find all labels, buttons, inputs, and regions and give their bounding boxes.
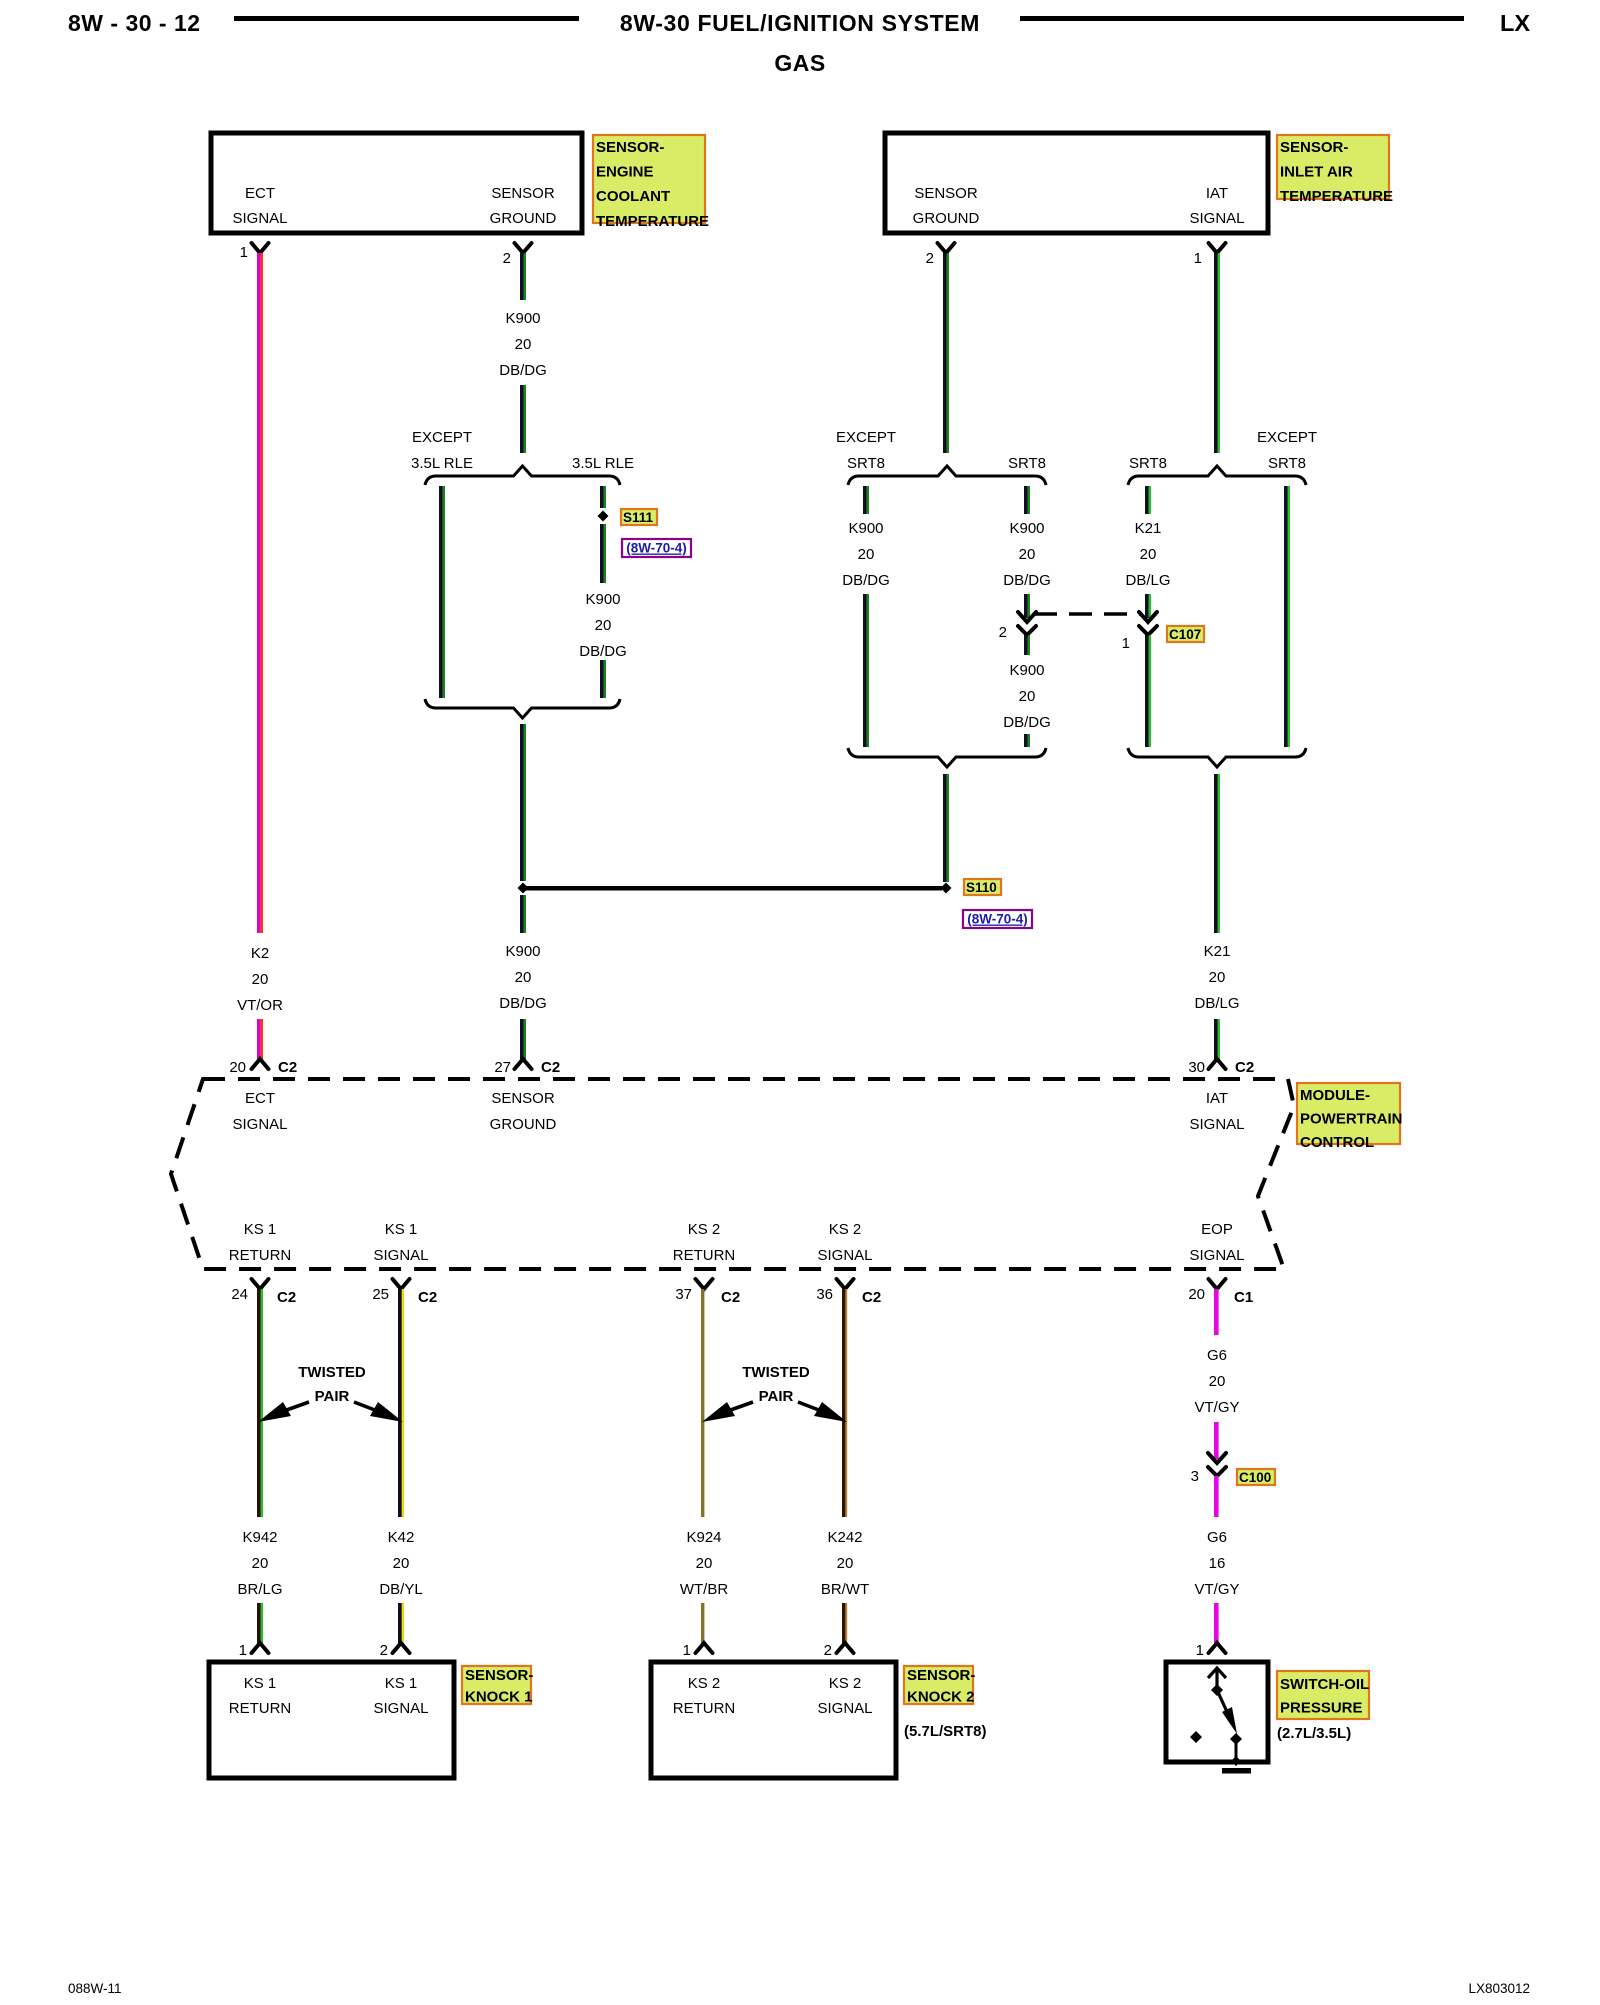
connector C100 [1208, 1453, 1226, 1463]
splice S110 left junction [518, 883, 529, 894]
wire branch 3.5L RLE lower [600, 660, 604, 698]
connector C107 pin 2 [1018, 612, 1036, 622]
svg-text:SIGNAL: SIGNAL [1189, 1247, 1244, 1264]
dashed link to C107 [1034, 612, 1141, 616]
svg-text:DB/LG: DB/LG [1194, 995, 1239, 1012]
wire K900 to splice S110 [520, 724, 524, 881]
svg-text:KS 1: KS 1 [244, 1675, 277, 1692]
svg-text:K942: K942 [242, 1529, 277, 1546]
svg-text:K2: K2 [251, 945, 269, 962]
svg-text:20: 20 [595, 617, 612, 634]
oil pressure switch box [1166, 1662, 1268, 1762]
svg-text:36: 36 [816, 1286, 833, 1303]
wire K924 KS2 return [701, 1289, 704, 1517]
svg-text:PAIR: PAIR [759, 1388, 794, 1405]
svg-text:20: 20 [1019, 688, 1036, 705]
svg-text:C2: C2 [1235, 1059, 1254, 1076]
svg-text:SIGNAL: SIGNAL [817, 1247, 872, 1264]
svg-text:1: 1 [1196, 1642, 1204, 1659]
wire G6 lower [1214, 1603, 1219, 1643]
svg-text:SIGNAL: SIGNAL [373, 1700, 428, 1717]
svg-text:TWISTED: TWISTED [742, 1364, 810, 1381]
svg-text:EOP: EOP [1201, 1221, 1233, 1238]
svg-text:ENGINE: ENGINE [596, 164, 654, 181]
label MODULE-POWERTRAIN CONTROL [1297, 1083, 1400, 1144]
label C100 [1237, 1469, 1275, 1485]
brace split except-SRT8 [848, 466, 1046, 485]
ground symbol [1222, 1768, 1251, 1774]
wire K924 lower [701, 1603, 704, 1643]
svg-text:(5.7L/SRT8): (5.7L/SRT8) [904, 1723, 987, 1740]
knock sensor 2 box [651, 1662, 896, 1778]
label SENSOR-KNOCK 2 [904, 1666, 973, 1704]
svg-text:3: 3 [1191, 1468, 1199, 1485]
svg-text:SENSOR-: SENSOR- [1280, 139, 1348, 156]
svg-text:20: 20 [1188, 1286, 1205, 1303]
svg-text:30: 30 [1188, 1059, 1205, 1076]
svg-text:C1: C1 [1234, 1289, 1253, 1306]
wire branch 3.5L RLE upper [600, 486, 604, 508]
svg-text:20: 20 [515, 336, 532, 353]
switch contact arrow [1208, 1668, 1226, 1678]
svg-text:VT/GY: VT/GY [1194, 1581, 1239, 1598]
svg-text:C107: C107 [1169, 627, 1201, 642]
svg-text:SIGNAL: SIGNAL [232, 210, 287, 227]
svg-text:K242: K242 [827, 1529, 862, 1546]
svg-text:DB/DG: DB/DG [1003, 714, 1051, 731]
svg-text:S110: S110 [966, 880, 997, 895]
svg-text:EXCEPT: EXCEPT [1257, 429, 1317, 446]
twisted pair arrows KS2 [725, 1402, 753, 1412]
svg-text:EXCEPT: EXCEPT [412, 429, 472, 446]
wire K42 lower [398, 1603, 402, 1643]
wire K42 KS1 signal [398, 1289, 402, 1517]
svg-text:1: 1 [1194, 250, 1202, 267]
svg-text:37: 37 [675, 1286, 692, 1303]
svg-text:G6: G6 [1207, 1347, 1227, 1364]
wire branch except SRT8 upper [863, 486, 867, 514]
splice S110 right junction [941, 883, 952, 894]
svg-text:DB/DG: DB/DG [499, 362, 547, 379]
wire K21 below C107 [1145, 635, 1149, 747]
wire K900 to PCM [520, 1019, 524, 1059]
wire SRT8 below C107 [1024, 635, 1028, 655]
wire K2 20 VT/OR (ECT signal) [257, 253, 261, 933]
svg-text:K900: K900 [848, 520, 883, 537]
svg-text:1: 1 [1122, 635, 1130, 652]
svg-text:K42: K42 [388, 1529, 415, 1546]
svg-text:1: 1 [240, 244, 248, 261]
wire sensor ground IAT [943, 253, 947, 453]
svg-text:20: 20 [515, 969, 532, 986]
svg-text:KS 2: KS 2 [829, 1221, 862, 1238]
svg-text:KS 1: KS 1 [244, 1221, 277, 1238]
svg-text:20: 20 [837, 1555, 854, 1572]
svg-text:DB/DG: DB/DG [842, 572, 890, 589]
svg-text:20: 20 [229, 1059, 246, 1076]
label SWITCH-OIL PRESSURE [1277, 1671, 1369, 1719]
header rule right [1020, 16, 1464, 21]
link 8W-70-4 (S110) [963, 910, 1032, 928]
wire K21 to C107 [1145, 594, 1149, 618]
svg-text:K924: K924 [686, 1529, 721, 1546]
wire branch 3.5L RLE below splice [600, 524, 604, 583]
pin 20 C2 PCM connector [252, 1059, 269, 1069]
svg-text:ECT: ECT [245, 185, 275, 202]
wire to ground [1235, 1739, 1238, 1762]
wire K21 IAT signal [1214, 253, 1218, 453]
svg-text:CONTROL: CONTROL [1300, 1134, 1374, 1151]
wire branch SRT8 upper [1024, 486, 1028, 514]
svg-text:SRT8: SRT8 [1129, 455, 1167, 472]
wire G6 below C100 [1214, 1476, 1219, 1517]
svg-text:KS 2: KS 2 [688, 1221, 721, 1238]
brace merge IAT SRT8 [1128, 748, 1306, 767]
svg-text:SRT8: SRT8 [1268, 455, 1306, 472]
svg-text:BR/WT: BR/WT [821, 1581, 869, 1598]
svg-text:POWERTRAIN: POWERTRAIN [1300, 1111, 1403, 1128]
svg-text:20: 20 [393, 1555, 410, 1572]
svg-text:TEMPERATURE: TEMPERATURE [1280, 188, 1393, 205]
svg-text:RETURN: RETURN [229, 1247, 292, 1264]
svg-text:20: 20 [252, 971, 269, 988]
svg-text:SENSOR-: SENSOR- [596, 139, 664, 156]
svg-text:VT/GY: VT/GY [1194, 1399, 1239, 1416]
wire K942 lower [257, 1603, 261, 1643]
svg-text:TEMPERATURE: TEMPERATURE [596, 213, 709, 230]
svg-text:16: 16 [1209, 1555, 1226, 1572]
svg-text:RETURN: RETURN [673, 1700, 736, 1717]
svg-text:KS 2: KS 2 [688, 1675, 721, 1692]
brace split except-3.5L-RLE [425, 466, 620, 485]
svg-text:2: 2 [824, 1642, 832, 1659]
svg-text:SIGNAL: SIGNAL [1189, 210, 1244, 227]
wire K942 KS1 return [257, 1289, 261, 1517]
svg-text:C2: C2 [277, 1289, 296, 1306]
wire G6 20 VT/GY upper [1214, 1289, 1219, 1335]
wire K21 to PCM [1214, 1019, 1218, 1059]
svg-text:INLET AIR: INLET AIR [1280, 164, 1353, 181]
label SENSOR-ENGINE COOLANT TEMPERATURE [593, 135, 705, 223]
svg-text:SENSOR: SENSOR [914, 185, 978, 202]
svg-text:SIGNAL: SIGNAL [1189, 1116, 1244, 1133]
svg-text:2: 2 [999, 624, 1007, 641]
svg-text:WT/BR: WT/BR [680, 1581, 728, 1598]
switch NC contact dot [1190, 1731, 1202, 1743]
svg-text:C2: C2 [721, 1289, 740, 1306]
svg-text:27: 27 [494, 1059, 511, 1076]
svg-text:GROUND: GROUND [913, 210, 980, 227]
svg-text:3.5L RLE: 3.5L RLE [411, 455, 473, 472]
svg-text:GAS: GAS [774, 50, 825, 76]
svg-text:SRT8: SRT8 [847, 455, 885, 472]
label C107 [1167, 626, 1204, 642]
svg-text:IAT: IAT [1206, 185, 1228, 202]
svg-text:MODULE-: MODULE- [1300, 1087, 1370, 1104]
svg-text:3.5L RLE: 3.5L RLE [572, 455, 634, 472]
brace merge except-3.5L-RLE [425, 699, 620, 718]
svg-text:20: 20 [696, 1555, 713, 1572]
pin 27 C2 PCM connector [515, 1059, 532, 1069]
svg-text:PAIR: PAIR [315, 1388, 350, 1405]
svg-text:C2: C2 [862, 1289, 881, 1306]
svg-text:KNOCK 2: KNOCK 2 [907, 1689, 975, 1706]
pin 30 C2 PCM connector [1209, 1059, 1226, 1069]
switch blade [1217, 1690, 1228, 1714]
svg-text:SENSOR-: SENSOR- [465, 1667, 533, 1684]
wire SRT8 to C107 [1024, 594, 1028, 618]
svg-text:SIGNAL: SIGNAL [373, 1247, 428, 1264]
svg-text:KS 1: KS 1 [385, 1221, 418, 1238]
svg-text:SENSOR: SENSOR [491, 185, 555, 202]
svg-text:2: 2 [380, 1642, 388, 1659]
svg-text:PRESSURE: PRESSURE [1280, 1700, 1363, 1717]
svg-text:IAT: IAT [1206, 1090, 1228, 1107]
switch contact [1230, 1733, 1242, 1745]
svg-text:SRT8: SRT8 [1008, 455, 1046, 472]
svg-text:1: 1 [239, 1642, 247, 1659]
svg-text:K900: K900 [505, 310, 540, 327]
wire K900 to brace [520, 385, 524, 453]
svg-text:C2: C2 [541, 1059, 560, 1076]
splice S111 [598, 511, 609, 522]
svg-text:(8W-70-4): (8W-70-4) [967, 912, 1028, 927]
svg-text:GROUND: GROUND [490, 210, 557, 227]
wire K21 to PCM upper [1214, 774, 1218, 933]
connector C107 pin 1 [1139, 612, 1157, 622]
link 8W-70-4 (S111) [622, 539, 691, 557]
twisted pair arrows KS1 [281, 1402, 309, 1412]
svg-text:KS 1: KS 1 [385, 1675, 418, 1692]
svg-text:8W - 30 - 12: 8W - 30 - 12 [68, 10, 201, 36]
svg-text:24: 24 [231, 1286, 248, 1303]
svg-text:SENSOR-: SENSOR- [907, 1667, 975, 1684]
wire K900 upper segment [520, 253, 524, 300]
svg-text:COOLANT: COOLANT [596, 188, 670, 205]
svg-text:1: 1 [683, 1642, 691, 1659]
svg-text:20: 20 [858, 546, 875, 563]
label SENSOR-KNOCK 1 [462, 1666, 531, 1704]
svg-text:C2: C2 [278, 1059, 297, 1076]
svg-text:DB/DG: DB/DG [1003, 572, 1051, 589]
knock sensor 1 box [209, 1662, 454, 1778]
svg-text:DB/LG: DB/LG [1125, 572, 1170, 589]
svg-text:LX803012: LX803012 [1468, 1981, 1530, 1996]
wire branch except 3.5L RLE [439, 486, 443, 698]
wire K242 KS2 signal [842, 1289, 845, 1517]
svg-text:K21: K21 [1204, 943, 1231, 960]
wire to S110 right [943, 774, 947, 882]
wire G6 to C100 [1214, 1422, 1219, 1459]
label S111 [621, 509, 657, 525]
svg-text:RETURN: RETURN [229, 1700, 292, 1717]
svg-text:GROUND: GROUND [490, 1116, 557, 1133]
svg-text:20: 20 [252, 1555, 269, 1572]
svg-text:K900: K900 [1009, 662, 1044, 679]
svg-text:088W-11: 088W-11 [68, 1981, 122, 1996]
svg-text:C100: C100 [1239, 1470, 1271, 1485]
svg-text:K900: K900 [1009, 520, 1044, 537]
wire branch SRT8 (K21) upper [1145, 486, 1149, 514]
wire K242 lower [842, 1603, 845, 1643]
svg-text:KS 2: KS 2 [829, 1675, 862, 1692]
module powertrain control dashed boundary [171, 1079, 1294, 1269]
svg-text:SENSOR: SENSOR [491, 1090, 555, 1107]
svg-text:20: 20 [1019, 546, 1036, 563]
brace split IAT SRT8 [1128, 466, 1306, 485]
svg-text:SWITCH-OIL: SWITCH-OIL [1280, 1676, 1369, 1693]
svg-text:K21: K21 [1135, 520, 1162, 537]
svg-text:DB/DG: DB/DG [579, 643, 627, 660]
svg-text:RETURN: RETURN [673, 1247, 736, 1264]
svg-text:DB/YL: DB/YL [379, 1581, 422, 1598]
svg-text:G6: G6 [1207, 1529, 1227, 1546]
svg-text:(8W-70-4): (8W-70-4) [626, 541, 687, 556]
svg-text:EXCEPT: EXCEPT [836, 429, 896, 446]
svg-text:20: 20 [1209, 1373, 1226, 1390]
svg-text:K900: K900 [585, 591, 620, 608]
brace merge except-SRT8 [848, 748, 1046, 767]
svg-text:LX: LX [1500, 10, 1530, 36]
svg-text:20: 20 [1140, 546, 1157, 563]
wire SRT8 lower [1024, 734, 1028, 747]
svg-text:BR/LG: BR/LG [237, 1581, 282, 1598]
svg-text:2: 2 [503, 250, 511, 267]
wire K2 lower segment [257, 1019, 261, 1059]
wire K900 below S110 [520, 895, 524, 933]
svg-text:DB/DG: DB/DG [499, 995, 547, 1012]
svg-text:VT/OR: VT/OR [237, 997, 283, 1014]
svg-text:8W-30 FUEL/IGNITION SYSTEM: 8W-30 FUEL/IGNITION SYSTEM [620, 10, 980, 36]
svg-text:K900: K900 [505, 943, 540, 960]
IAT sensor (inlet air temperature) box [885, 133, 1268, 233]
switch pivot [1211, 1684, 1223, 1696]
svg-text:20: 20 [1209, 969, 1226, 986]
svg-text:S111: S111 [623, 510, 654, 525]
svg-text:(2.7L/3.5L): (2.7L/3.5L) [1277, 1725, 1351, 1742]
ECT sensor (engine coolant temperature) box [211, 133, 582, 233]
label SENSOR-INLET AIR TEMPERATURE [1277, 135, 1389, 199]
wire S110 horizontal [523, 886, 942, 891]
svg-text:2: 2 [926, 250, 934, 267]
svg-text:KNOCK 1: KNOCK 1 [465, 1689, 533, 1706]
svg-text:25: 25 [372, 1286, 389, 1303]
wire branch except SRT8 (IAT) [1284, 486, 1288, 747]
svg-text:TWISTED: TWISTED [298, 1364, 366, 1381]
header rule left [234, 16, 579, 21]
svg-text:ECT: ECT [245, 1090, 275, 1107]
svg-text:SIGNAL: SIGNAL [817, 1700, 872, 1717]
svg-text:C2: C2 [418, 1289, 437, 1306]
label S110 [964, 879, 1001, 895]
svg-text:SIGNAL: SIGNAL [232, 1116, 287, 1133]
wire branch except SRT8 lower [863, 594, 867, 747]
